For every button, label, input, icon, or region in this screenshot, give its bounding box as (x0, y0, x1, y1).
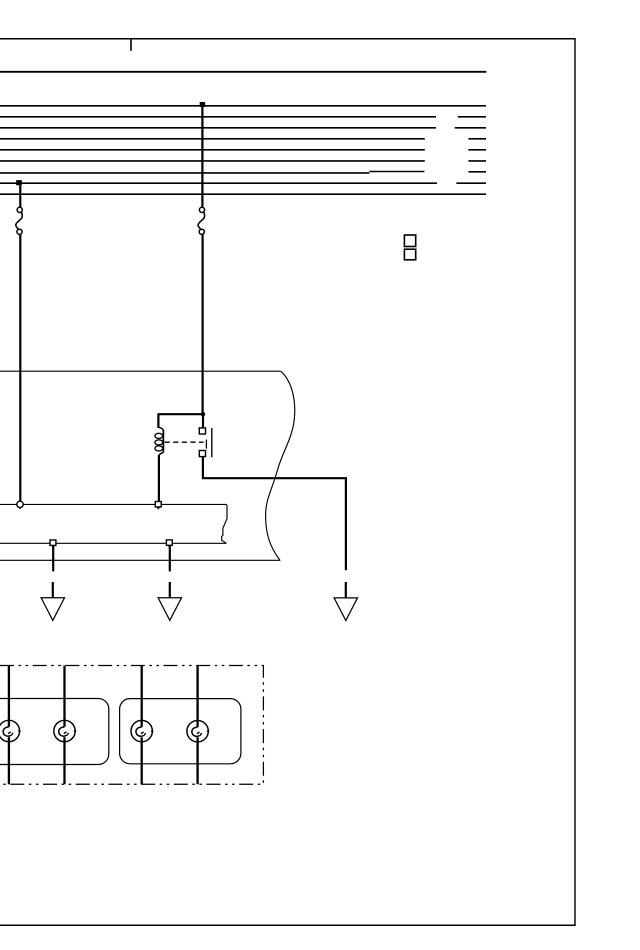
connector box line 1 (0, 504, 227, 506)
bus header line (0, 71, 486, 73)
lamp L3 (131, 666, 153, 785)
component box bottom edge (0, 559, 280, 561)
component box torn right edge (S-curve) (266, 371, 295, 560)
bus line 5 (0, 149, 486, 151)
wire column A upper (19, 185, 21, 207)
connector pin (square, ground 2) (166, 540, 172, 547)
wire column B lower (202, 234, 204, 413)
lamp housing 2 (rounded) (120, 699, 241, 764)
lamp L1 (0, 666, 21, 785)
connector box line 2 (0, 542, 226, 544)
relay upper contact terminal (199, 428, 205, 434)
ground G2 (158, 582, 181, 620)
bus line 7 (jogged) (0, 172, 486, 173)
relay actuation dashed line (165, 441, 204, 443)
relay junction node (201, 412, 205, 416)
component box top edge (0, 370, 281, 372)
relay coil (155, 427, 163, 456)
lamp housing 1 (rounded) (0, 699, 109, 765)
relay contact bar (211, 428, 213, 457)
wire column B upper (201, 106, 203, 207)
lamp L4 (187, 666, 209, 785)
fuse F2 (198, 207, 204, 234)
bus line 9 (0, 193, 486, 195)
relay actuation dash vertical (205, 440, 207, 449)
connector pin (square, ground 1) (50, 540, 56, 547)
fuse F1 (16, 207, 22, 234)
relay lower contact terminal (199, 451, 205, 457)
ground G3 (334, 582, 357, 621)
wire relay link to coil (158, 413, 203, 428)
wire relay node to upper contact (202, 414, 204, 428)
wire ground 1 lead (52, 546, 54, 572)
connector symbol upper square (404, 235, 415, 247)
bus line 6 (0, 160, 486, 162)
bus line 8 (0, 182, 486, 184)
connector box torn right edge (222, 506, 227, 543)
bus line 1 (0, 105, 486, 107)
wire ground 2 lead (169, 546, 171, 572)
connector pin (square, coil column) (155, 502, 161, 509)
ground G1 (41, 582, 64, 620)
page border right (574, 39, 576, 926)
connector symbol lower square (404, 249, 415, 260)
bus line 3 (0, 127, 486, 129)
wire column A lower (19, 234, 21, 501)
connector pin (round, column A) (17, 501, 23, 509)
bus line 4 (0, 138, 486, 140)
bus line 2 (0, 116, 486, 118)
wire lower contact to ground run (202, 457, 346, 571)
wire coil to pin (158, 455, 160, 501)
lamp unit box (dash-dot-dot) (0, 666, 263, 785)
page border bottom (0, 924, 576, 926)
page border top (0, 38, 576, 40)
node junction on bus line 1 (200, 102, 205, 107)
page border tick (130, 39, 132, 51)
lamp L2 (54, 666, 76, 785)
node junction on bus line 8 (16, 180, 22, 185)
